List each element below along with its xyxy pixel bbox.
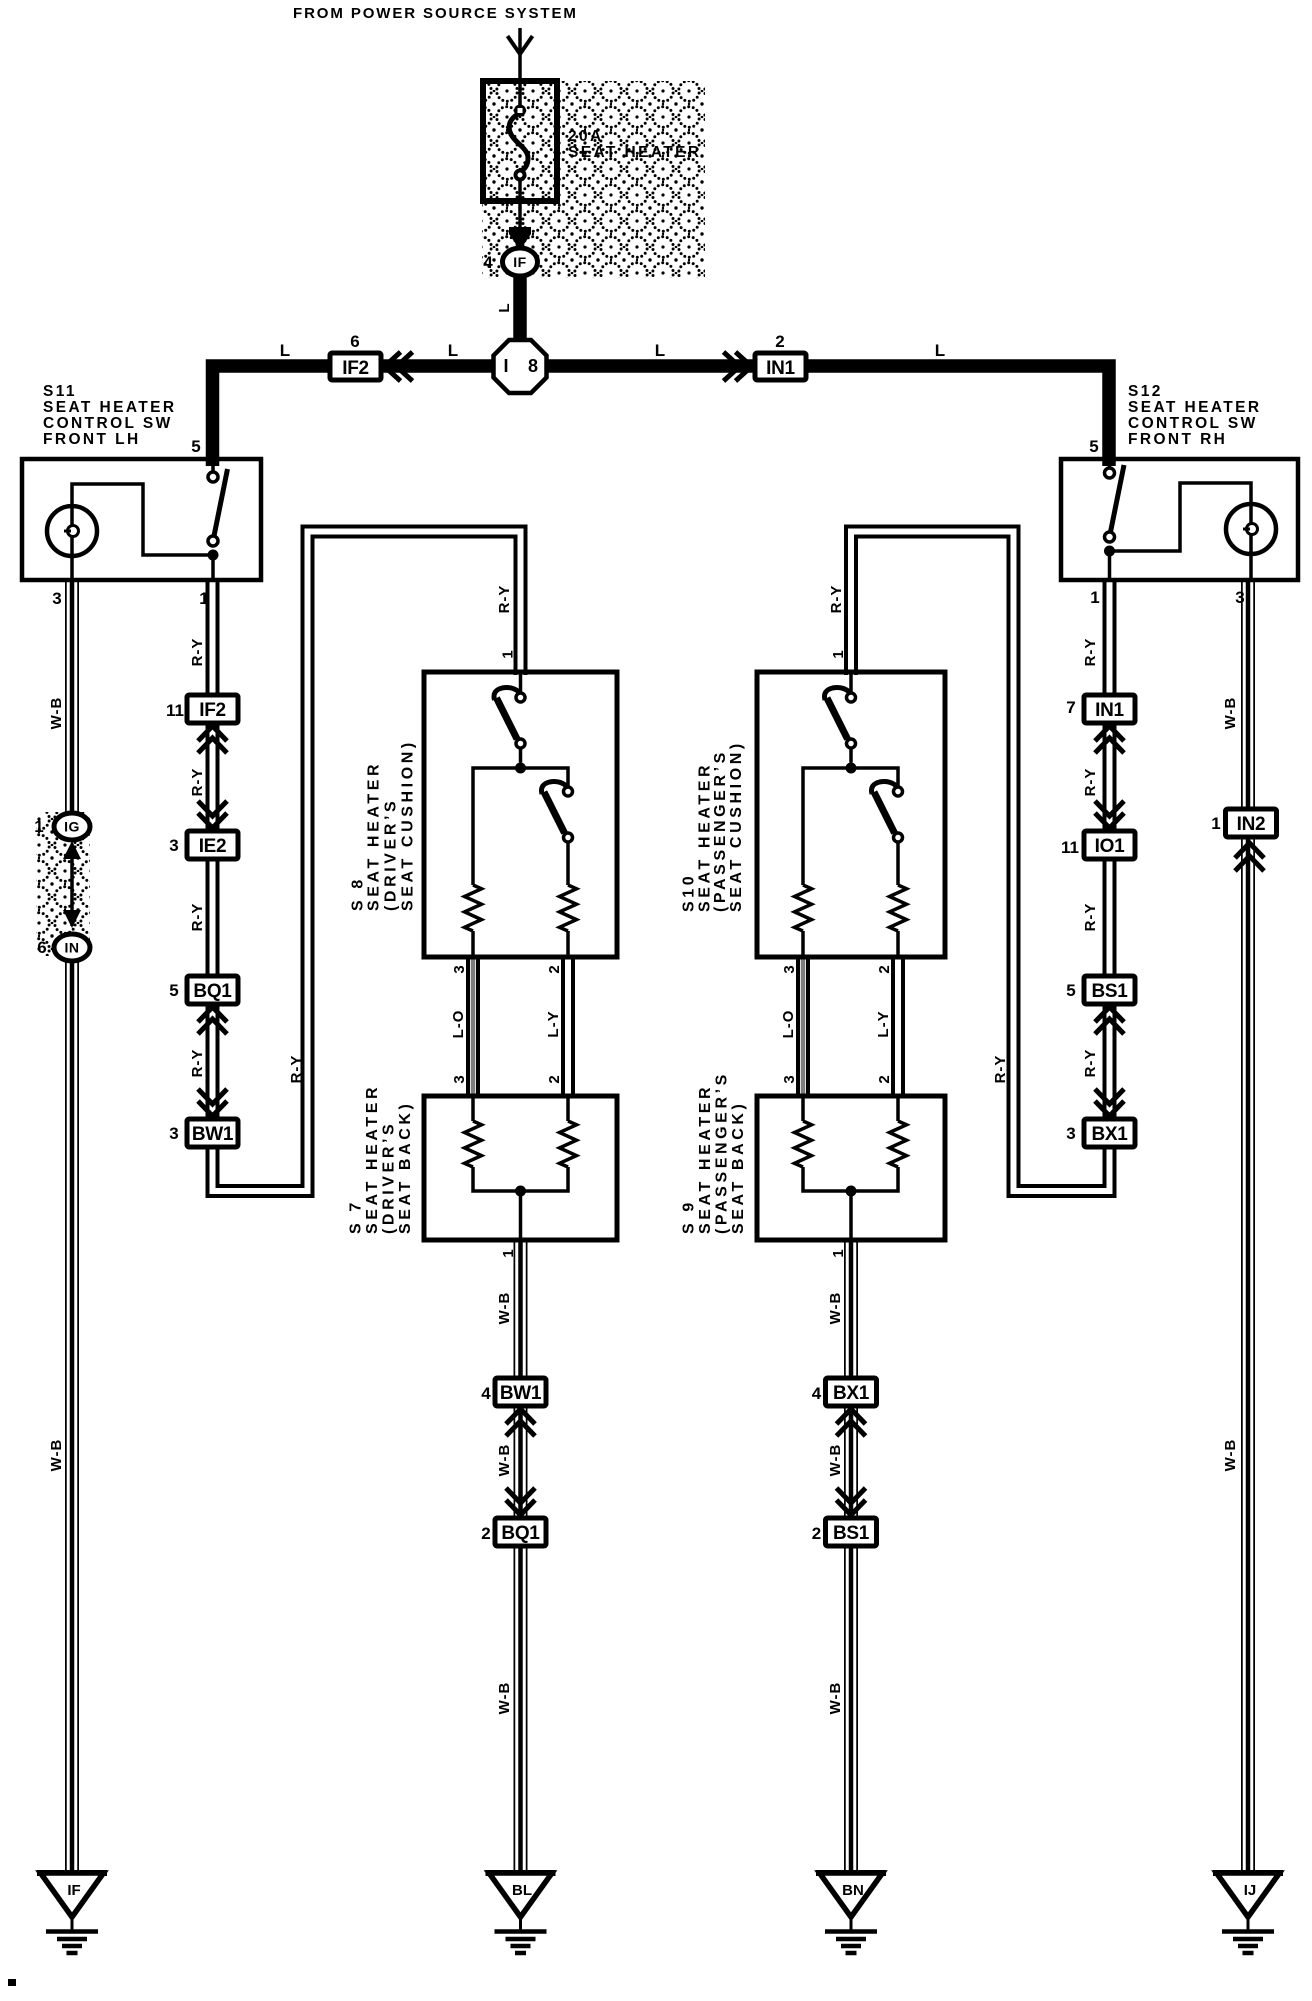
svg-text:1: 1 (34, 817, 43, 836)
svg-text:W-B: W-B (48, 1439, 65, 1472)
svg-text:8: 8 (528, 356, 538, 376)
svg-text:R-Y: R-Y (189, 903, 206, 932)
svg-text:1: 1 (830, 649, 847, 658)
svg-text:L: L (448, 341, 458, 360)
svg-text:FRONT LH: FRONT LH (43, 431, 141, 448)
svg-text:R-Y: R-Y (828, 585, 845, 614)
svg-text:R-Y: R-Y (189, 768, 206, 797)
svg-text:1: 1 (500, 649, 517, 658)
svg-text:1: 1 (500, 1248, 517, 1257)
svg-text:4: 4 (481, 1384, 491, 1403)
svg-text:IG: IG (64, 819, 80, 835)
svg-text:L-O: L-O (780, 1010, 797, 1039)
svg-text:BS1: BS1 (1091, 981, 1128, 1002)
svg-text:W-B: W-B (827, 1682, 844, 1715)
svg-text:L: L (655, 341, 665, 360)
svg-text:3: 3 (781, 1074, 798, 1083)
svg-text:5: 5 (1089, 437, 1098, 456)
svg-text:2: 2 (876, 964, 893, 973)
svg-text:3: 3 (451, 964, 468, 973)
svg-text:6: 6 (37, 938, 46, 957)
svg-text:IO1: IO1 (1095, 836, 1125, 857)
svg-text:CONTROL SW: CONTROL SW (1128, 415, 1258, 432)
svg-text:(DRIVER’S: (DRIVER’S (383, 798, 400, 911)
svg-text:2: 2 (481, 1524, 490, 1543)
svg-text:R-Y: R-Y (992, 1055, 1009, 1084)
svg-text:4: 4 (812, 1384, 822, 1403)
svg-text:5: 5 (191, 437, 200, 456)
svg-text:W-B: W-B (1222, 697, 1239, 730)
svg-text:IN2: IN2 (1237, 814, 1266, 835)
svg-text:BN: BN (842, 1882, 864, 1899)
svg-text:SEAT CUSHION): SEAT CUSHION) (728, 740, 745, 912)
svg-text:2: 2 (775, 332, 784, 351)
svg-text:SEAT HEATER: SEAT HEATER (43, 399, 176, 416)
svg-text:BW1: BW1 (500, 1383, 542, 1404)
svg-text:5: 5 (1066, 981, 1075, 1000)
svg-text:L-O: L-O (450, 1010, 467, 1039)
svg-text:1: 1 (1090, 588, 1099, 607)
svg-text:BX1: BX1 (1091, 1124, 1128, 1145)
svg-text:BX1: BX1 (833, 1383, 870, 1404)
svg-text:(DRIVER’S: (DRIVER’S (381, 1121, 398, 1234)
svg-text:3: 3 (1235, 588, 1244, 607)
svg-text:2: 2 (812, 1524, 821, 1543)
svg-text:S 9: S 9 (681, 1199, 698, 1234)
svg-text:4: 4 (483, 253, 493, 272)
svg-text:3: 3 (52, 589, 61, 608)
svg-text:BQ1: BQ1 (193, 981, 232, 1002)
svg-text:SEAT HEATER: SEAT HEATER (1128, 399, 1261, 416)
svg-text:SEAT HEATER: SEAT HEATER (568, 144, 701, 161)
svg-text:3: 3 (451, 1074, 468, 1083)
svg-text:R-Y: R-Y (1082, 768, 1099, 797)
svg-text:S10: S10 (681, 873, 698, 912)
svg-text:BS1: BS1 (833, 1523, 870, 1544)
svg-text:BL: BL (512, 1882, 532, 1899)
svg-text:R-Y: R-Y (1082, 1049, 1099, 1078)
svg-text:R-Y: R-Y (1082, 638, 1099, 667)
svg-text:2: 2 (876, 1074, 893, 1083)
svg-text:5: 5 (169, 981, 178, 1000)
svg-text:IF: IF (67, 1882, 80, 1899)
svg-text:W-B: W-B (1222, 1439, 1239, 1472)
svg-text:2: 2 (546, 964, 563, 973)
svg-text:SEAT HEATER: SEAT HEATER (364, 1084, 381, 1234)
svg-text:1: 1 (199, 589, 208, 608)
svg-text:L-Y: L-Y (545, 1010, 562, 1037)
svg-text:SEAT HEATER: SEAT HEATER (366, 761, 383, 911)
svg-text:11: 11 (166, 701, 184, 720)
svg-text:(PASSENGER’S: (PASSENGER’S (712, 749, 729, 912)
svg-text:IF: IF (513, 254, 526, 270)
svg-text:1: 1 (830, 1248, 847, 1257)
svg-text:S11: S11 (43, 383, 77, 400)
svg-text:3: 3 (169, 836, 178, 855)
svg-text:S12: S12 (1128, 383, 1163, 400)
svg-text:R-Y: R-Y (496, 585, 513, 614)
svg-text:3: 3 (169, 1124, 178, 1143)
svg-text:CONTROL SW: CONTROL SW (43, 415, 173, 432)
svg-text:R-Y: R-Y (288, 1055, 305, 1084)
svg-text:2: 2 (546, 1074, 563, 1083)
svg-text:L: L (496, 302, 513, 312)
svg-text:L-Y: L-Y (875, 1010, 892, 1037)
svg-text:R-Y: R-Y (189, 1049, 206, 1078)
svg-text:BW1: BW1 (192, 1124, 234, 1145)
svg-text:IN: IN (65, 940, 80, 956)
svg-text:3: 3 (781, 964, 798, 973)
svg-text:FRONT RH: FRONT RH (1128, 431, 1227, 448)
svg-text:W-B: W-B (496, 1682, 513, 1715)
svg-text:IF2: IF2 (199, 700, 226, 721)
svg-text:L: L (280, 341, 290, 360)
svg-text:20A: 20A (568, 128, 604, 145)
svg-text:IF2: IF2 (342, 358, 369, 379)
svg-text:FROM POWER SOURCE SYSTEM: FROM POWER SOURCE SYSTEM (293, 5, 578, 22)
svg-text:L: L (935, 341, 945, 360)
svg-text:S 8: S 8 (350, 876, 367, 911)
svg-text:7: 7 (1066, 698, 1075, 717)
svg-text:W-B: W-B (496, 1444, 513, 1477)
svg-text:SEAT BACK): SEAT BACK) (730, 1101, 747, 1234)
svg-text:11: 11 (1061, 838, 1079, 857)
svg-text:IE2: IE2 (199, 836, 227, 857)
svg-text:SEAT CUSHION): SEAT CUSHION) (400, 739, 417, 911)
svg-text:SEAT HEATER: SEAT HEATER (697, 762, 714, 912)
svg-text:S 7: S 7 (348, 1199, 365, 1234)
svg-text:W-B: W-B (827, 1292, 844, 1325)
svg-text:W-B: W-B (48, 697, 65, 730)
svg-text:I: I (503, 356, 508, 376)
svg-text:SEAT BACK): SEAT BACK) (397, 1101, 414, 1234)
svg-text:IN1: IN1 (1095, 700, 1124, 721)
svg-text:SEAT HEATER: SEAT HEATER (697, 1084, 714, 1234)
svg-text:1: 1 (1211, 814, 1220, 833)
svg-text:IJ: IJ (1244, 1882, 1257, 1899)
svg-text:IN1: IN1 (766, 358, 795, 379)
svg-text:BQ1: BQ1 (501, 1523, 540, 1544)
svg-text:3: 3 (1066, 1124, 1075, 1143)
svg-text:R-Y: R-Y (1082, 903, 1099, 932)
svg-text:R-Y: R-Y (189, 638, 206, 667)
svg-text:W-B: W-B (827, 1444, 844, 1477)
svg-text:6: 6 (350, 332, 359, 351)
svg-text:(PASSENGER’S: (PASSENGER’S (714, 1071, 731, 1234)
svg-text:W-B: W-B (496, 1292, 513, 1325)
